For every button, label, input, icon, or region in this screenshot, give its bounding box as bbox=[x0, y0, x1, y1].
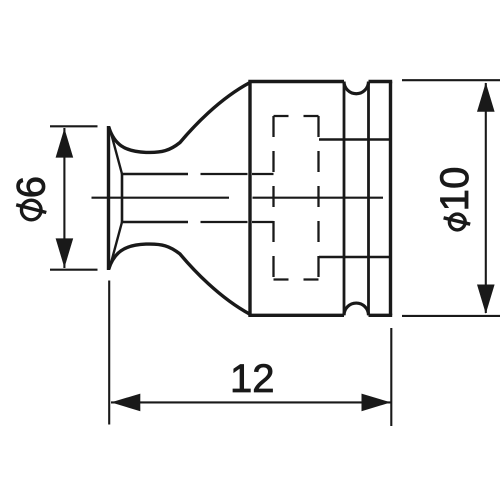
trumpet top profile curve bbox=[109, 83, 251, 153]
phi10 label: phi symbol bbox=[444, 214, 471, 230]
phi10 arrow down bbox=[477, 285, 495, 314]
body right edge bbox=[389, 82, 392, 316]
body left edge bbox=[248, 82, 251, 316]
phi6 arrow up bbox=[56, 128, 74, 157]
svg-text:12: 12 bbox=[230, 357, 275, 401]
dim12 arrow right bbox=[362, 394, 391, 412]
body bottom edge with groove notch bbox=[248, 314, 392, 317]
phi10 bottom extension line bbox=[402, 315, 500, 317]
countersink base circle edge bbox=[121, 173, 124, 223]
dim12 right extension line bbox=[390, 328, 392, 426]
phi10 arrow up bbox=[477, 83, 495, 112]
body top edge with groove notch bbox=[248, 80, 392, 83]
phi10 top extension line bbox=[402, 79, 500, 81]
trumpet bottom profile curve bbox=[109, 244, 251, 314]
dim12 left extension line bbox=[108, 281, 110, 425]
shaft bottom hidden line bbox=[201, 221, 274, 223]
bore bottom line bbox=[319, 256, 390, 259]
phi10 dimension line bbox=[485, 83, 487, 313]
bore top line bbox=[319, 138, 390, 141]
phi6 dimension line bbox=[63, 128, 65, 268]
svg-text:0: 0 bbox=[433, 167, 477, 189]
left face edge (phi6 face) bbox=[107, 126, 110, 270]
center line bbox=[92, 197, 384, 199]
groove right wall bbox=[367, 82, 370, 316]
svg-text:1: 1 bbox=[433, 189, 477, 211]
phi6 label: phi symbol bbox=[16, 200, 46, 220]
dim12 dimension line bbox=[111, 401, 391, 403]
phi6 bottom extension line bbox=[50, 269, 98, 271]
dim12 arrow left bbox=[111, 394, 140, 412]
shaft top line solid bbox=[122, 173, 188, 175]
svg-text:6: 6 bbox=[10, 176, 54, 198]
groove left wall bbox=[343, 82, 346, 316]
phi6 top extension line bbox=[50, 125, 98, 127]
shaft bottom line solid bbox=[122, 221, 188, 223]
hidden square cavity bbox=[274, 116, 319, 280]
shaft top hidden line bbox=[201, 173, 274, 175]
bottom notch semicircle bbox=[344, 303, 369, 315]
countersink bottom slant bbox=[110, 222, 123, 269]
top notch semicircle bbox=[344, 82, 369, 94]
countersink top slant bbox=[110, 128, 123, 175]
phi6 arrow down bbox=[56, 238, 74, 267]
